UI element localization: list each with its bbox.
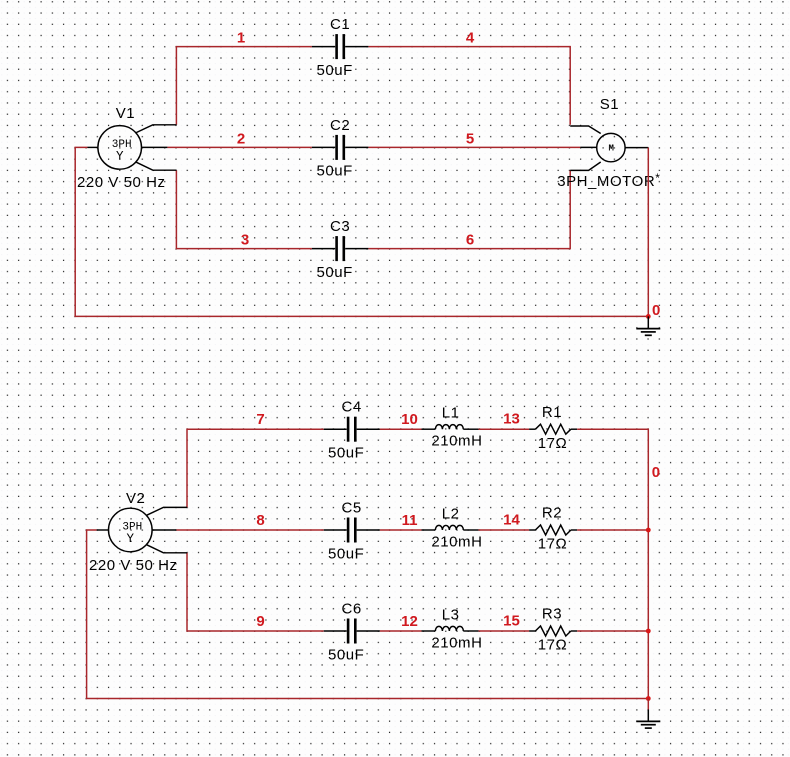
svg-text:C4: C4 xyxy=(342,399,362,416)
wire net 1 (V1 top terminal to C1) xyxy=(176,47,312,125)
svg-text:50uF: 50uF xyxy=(328,445,364,462)
wire net 0 (ground stub) xyxy=(647,699,649,710)
svg-text:C2: C2 xyxy=(330,117,350,134)
ground (top circuit) xyxy=(636,316,660,335)
capacitor C6 xyxy=(324,619,380,644)
svg-text:2: 2 xyxy=(237,130,245,147)
resistor R1 xyxy=(529,424,577,434)
resistor R2 xyxy=(529,525,577,535)
svg-text:10: 10 xyxy=(401,411,418,428)
svg-text:50uF: 50uF xyxy=(317,62,353,79)
inductor L1 xyxy=(422,425,479,430)
wire net 12 (C6 to L3) xyxy=(380,630,422,632)
svg-text:11: 11 xyxy=(402,512,418,529)
svg-text:50uF: 50uF xyxy=(328,646,364,663)
junction (bottom ground node) xyxy=(646,696,651,701)
svg-text:15: 15 xyxy=(503,613,520,630)
wire net 10 (C4 to L1) xyxy=(380,428,422,430)
svg-text:6: 6 xyxy=(466,232,474,249)
3-phase source V2 xyxy=(97,507,187,552)
svg-text:9: 9 xyxy=(256,613,264,630)
wire net 0 (V2 left/neutral to bottom rail) xyxy=(87,530,649,699)
wire net 13 (L1 to R1) xyxy=(479,428,530,430)
capacitor C1 xyxy=(312,34,369,59)
svg-text:3PH_MOTOR*: 3PH_MOTOR* xyxy=(557,171,660,190)
svg-text:C1: C1 xyxy=(330,16,350,33)
svg-text:1: 1 xyxy=(237,30,245,47)
inductor L2 xyxy=(422,525,479,530)
wire net 11 (C5 to L2) xyxy=(380,529,422,531)
svg-text:Y: Y xyxy=(127,532,135,546)
wire net 2 (V1 right terminal to C2) xyxy=(167,146,312,148)
ground (bottom circuit) xyxy=(636,710,660,729)
svg-text:L3: L3 xyxy=(442,606,460,623)
wire net 7 (V2 top terminal to C4) xyxy=(187,429,324,507)
junction (net 0 at R3) xyxy=(646,629,651,634)
svg-text:0: 0 xyxy=(652,464,660,481)
svg-text:V1: V1 xyxy=(116,105,135,122)
svg-text:C6: C6 xyxy=(342,601,362,618)
wire net 3 (V1 bottom terminal to C3) xyxy=(176,170,312,248)
inductor L3 xyxy=(422,626,479,631)
svg-text:50uF: 50uF xyxy=(317,264,353,281)
wire net 0 (top circuit ground net) xyxy=(75,147,648,316)
svg-text:50uF: 50uF xyxy=(328,545,364,562)
wire net 15 (L3 to R3) xyxy=(479,630,530,632)
svg-text:5: 5 xyxy=(466,130,474,147)
svg-text:13: 13 xyxy=(503,411,520,428)
svg-text:0: 0 xyxy=(652,302,660,319)
wire net 0 (R1 to right rail) xyxy=(577,429,648,698)
svg-text:17Ω: 17Ω xyxy=(538,536,568,553)
svg-text:C3: C3 xyxy=(330,218,350,235)
wire net 5 (C2 to S1 left terminal) xyxy=(368,146,580,148)
svg-text:Y: Y xyxy=(116,149,124,163)
resistor R3 xyxy=(529,626,577,636)
capacitor C2 xyxy=(312,135,369,160)
svg-text:210mH: 210mH xyxy=(431,533,482,550)
wire net 9 (V2 bottom terminal to C6) xyxy=(187,553,324,631)
svg-text:12: 12 xyxy=(401,613,418,630)
svg-text:V2: V2 xyxy=(126,490,145,507)
wire net 0 (R2 to right rail) xyxy=(577,529,648,531)
svg-text:17Ω: 17Ω xyxy=(538,637,568,654)
capacitor C5 xyxy=(324,518,380,543)
capacitor C3 xyxy=(312,236,369,261)
svg-text:8: 8 xyxy=(256,512,264,529)
svg-text:17Ω: 17Ω xyxy=(538,435,568,452)
junction (top ground node) xyxy=(646,314,651,319)
svg-text:M: M xyxy=(608,144,613,154)
svg-text:R2: R2 xyxy=(542,505,562,522)
wire net 4 (C1 to S1 top terminal) xyxy=(368,47,570,125)
svg-text:S1: S1 xyxy=(600,96,619,113)
wire net 6 (C3 to S1 bottom terminal) xyxy=(368,170,570,248)
svg-text:50uF: 50uF xyxy=(317,163,353,180)
svg-text:3: 3 xyxy=(241,232,249,249)
wire net 8 (V2 right terminal to C5) xyxy=(176,529,323,531)
motor S1 xyxy=(570,126,648,170)
svg-text:4: 4 xyxy=(466,30,475,47)
3-phase source V1 xyxy=(88,125,177,170)
wire net 0 (S1 right to ground) xyxy=(647,148,649,317)
svg-text:R1: R1 xyxy=(542,404,562,421)
svg-text:14: 14 xyxy=(503,512,520,529)
svg-text:220 V 50 Hz: 220 V 50 Hz xyxy=(89,557,178,574)
svg-text:L2: L2 xyxy=(442,505,460,522)
svg-text:220 V 50 Hz: 220 V 50 Hz xyxy=(77,174,166,191)
wire net 14 (L2 to R2) xyxy=(479,529,530,531)
svg-text:C5: C5 xyxy=(342,500,362,517)
svg-text:210mH: 210mH xyxy=(431,433,482,450)
capacitor C4 xyxy=(324,417,380,442)
svg-text:R3: R3 xyxy=(542,606,562,623)
svg-text:7: 7 xyxy=(256,411,264,428)
junction (net 0 at R2) xyxy=(646,528,651,533)
svg-text:L1: L1 xyxy=(442,405,460,422)
wire net 0 (R3 to right rail) xyxy=(577,630,648,632)
svg-text:210mH: 210mH xyxy=(431,634,482,651)
